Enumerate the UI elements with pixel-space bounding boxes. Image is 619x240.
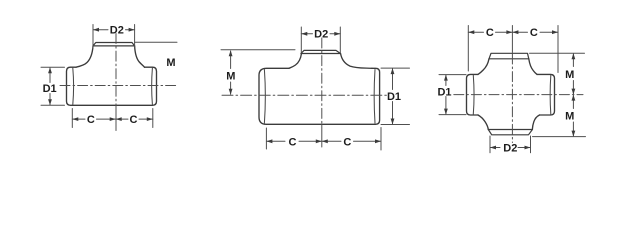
cross dimension D2 extension lines [490, 136, 531, 153]
svg-text:C: C [130, 114, 138, 126]
cross dimension M (upper) line and arrows [572, 54, 574, 94]
tee2 vertical centerline [321, 38, 323, 125]
cross dimension D2 line and arrows [490, 147, 531, 149]
tee2 extension line from branch top to M [221, 49, 295, 51]
cross dimension C (left) line and arrows [468, 31, 512, 33]
svg-text:C: C [343, 136, 351, 148]
cross right arm outline [537, 74, 555, 115]
tee1 vertical centerline [115, 34, 117, 107]
tee2 dimension C (right) line and arrows [322, 140, 381, 142]
cross vertical centerline [511, 54, 513, 143]
svg-text:M: M [565, 111, 574, 123]
svg-text:D2: D2 [503, 143, 517, 155]
tee2 dimension C center extension line [321, 125, 323, 148]
tee1 horizontal centerline [60, 85, 176, 87]
tee2 dimension C (left) line and arrows [266, 140, 321, 142]
tee2 dimension D1 extension lines [381, 68, 410, 124]
tee2 dimension M line and arrows [230, 51, 232, 94]
svg-text:M: M [226, 71, 235, 83]
svg-text:C: C [486, 27, 494, 39]
tee2 dimension C extension lines [266, 128, 381, 151]
tee1 dimension D2 line and arrows [93, 29, 135, 31]
tee1 dimension C (right) line and arrows [116, 118, 153, 120]
tee1 branch right wall [135, 46, 145, 67]
svg-text:D1: D1 [437, 86, 451, 98]
tee1 dimension D2 extension lines [93, 25, 135, 49]
cross top branch left wall [478, 59, 489, 75]
svg-text:D2: D2 [110, 25, 124, 37]
tee1 extension line from branch top to M [135, 41, 177, 43]
tee1 dimension D1 extension lines [41, 67, 65, 105]
cross right end bevel line [549, 75, 552, 114]
tee1 dimension C (left) line and arrows [72, 118, 115, 120]
tee2 dimension D2 line and arrows [301, 33, 340, 35]
tee1 branch left wall [76, 46, 93, 67]
tee1 dimension C extension lines [72, 109, 153, 128]
cross dimension M (lower) line and arrows [572, 95, 574, 135]
svg-text:D1: D1 [387, 91, 401, 103]
tee1 left end bevel line [72, 68, 75, 105]
cross horizontal centerline [454, 94, 583, 96]
cross top dimension C extension lines [468, 26, 558, 73]
tee2 branch left wall [289, 53, 302, 68]
cross dimension C (right) line and arrows [512, 31, 558, 33]
tee2 run body outline [259, 68, 380, 124]
tee2 right end bevel line [373, 70, 376, 124]
cross left arm outline [467, 74, 479, 115]
svg-text:D1: D1 [43, 83, 57, 95]
cross dimension D1 extension lines [439, 75, 466, 115]
tee2 branch top cap [301, 50, 341, 53]
cross extension line from bottom branch to M [533, 136, 586, 138]
tee2 left end bevel line [263, 70, 266, 124]
tee1 dimension C center extension line [115, 106, 117, 131]
cross top dimension C center extension line [511, 26, 513, 53]
cross bottom branch cap [488, 130, 532, 135]
tee2 horizontal centerline [222, 94, 387, 96]
tee2 dimension D1 line and arrows [392, 69, 394, 124]
tee2 branch right wall [341, 53, 373, 68]
tee1 right end bevel line [151, 68, 154, 105]
tee1 dimension D1 line and arrows [49, 68, 51, 105]
tee1 run body outline [67, 67, 157, 105]
cross top branch cap [489, 53, 529, 59]
cross left end bevel line [472, 75, 475, 114]
svg-text:C: C [289, 136, 297, 148]
svg-text:M: M [166, 57, 175, 69]
cross bottom branch right wall [532, 115, 539, 130]
tee2 dimension D2 extension lines [301, 27, 340, 53]
cross bottom branch left wall [478, 115, 488, 130]
cross top branch right wall [529, 59, 537, 75]
svg-text:C: C [530, 27, 538, 39]
cross dimension D1 line and arrows [445, 75, 447, 114]
svg-text:M: M [565, 69, 574, 81]
cross extension line from top branch to M [530, 52, 585, 54]
svg-text:D2: D2 [314, 29, 328, 41]
tee1 branch top cap [93, 43, 135, 46]
svg-text:C: C [87, 114, 95, 126]
